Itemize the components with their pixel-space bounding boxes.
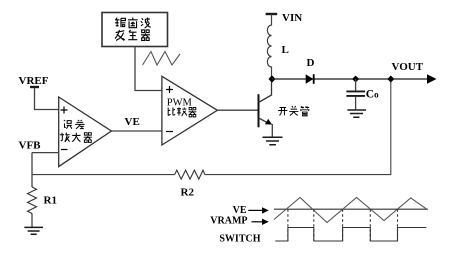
svg-text:VOUT: VOUT bbox=[392, 61, 424, 73]
resistor R1 bbox=[28, 187, 37, 214]
dashed crossing line 2 bbox=[313, 209, 315, 241]
wire R1 to ground bbox=[31, 214, 33, 228]
wire sawtooth box to PWM + input bbox=[135, 47, 162, 91]
dashed crossing line 3 bbox=[342, 209, 344, 241]
waveform VE level line bbox=[274, 208, 428, 210]
svg-text:R1: R1 bbox=[44, 195, 57, 207]
wire emitter to ground bbox=[271, 124, 273, 137]
label 放大器 bbox=[60, 133, 92, 143]
transistor Q1 emitter with arrow bbox=[259, 118, 273, 125]
svg-text:VREF: VREF bbox=[19, 75, 49, 87]
transistor Q1 collector bbox=[259, 80, 272, 103]
wire PWM output to transistor base bbox=[217, 109, 257, 111]
plus sign error amp bbox=[61, 107, 68, 114]
wire feedback VFB to R2 bbox=[32, 174, 175, 176]
node junction VOUT feedback bbox=[387, 76, 394, 83]
node junction Co bbox=[352, 76, 359, 83]
comparator U2 PWM triangle bbox=[162, 76, 218, 145]
op-amp U1 error amplifier triangle bbox=[59, 97, 112, 167]
ground under transistor bbox=[263, 137, 283, 144]
minus sign PWM bbox=[166, 131, 173, 133]
waveform SWITCH square wave bbox=[275, 228, 426, 242]
svg-text:SWITCH: SWITCH bbox=[219, 234, 260, 245]
svg-text:VE: VE bbox=[233, 205, 247, 216]
waveform VRAMP triangle wave bbox=[274, 198, 428, 223]
wire error amp output to PWM - input bbox=[111, 130, 161, 132]
wire VREF to op-amp + input bbox=[35, 88, 60, 110]
svg-text:VE: VE bbox=[125, 116, 140, 128]
svg-text:VFB: VFB bbox=[19, 140, 42, 152]
label 开关管 bbox=[278, 106, 309, 116]
inductor L coil bbox=[267, 14, 271, 77]
minus sign error amp bbox=[61, 149, 68, 151]
svg-text:R2: R2 bbox=[181, 187, 195, 199]
plus sign PWM bbox=[166, 86, 173, 93]
wire VFB node down to R1 bbox=[31, 153, 33, 187]
diode D bbox=[306, 74, 314, 84]
VIN terminal bar bbox=[266, 13, 278, 15]
ground under R1 bbox=[24, 227, 43, 234]
svg-text:VIN: VIN bbox=[282, 12, 302, 24]
dashed crossing line 1 bbox=[287, 209, 289, 241]
svg-text:VRAMP: VRAMP bbox=[210, 216, 247, 227]
sawtooth waveform symbol bbox=[143, 52, 181, 66]
resistor R2 bbox=[175, 170, 205, 179]
wire Co to ground bbox=[355, 97, 357, 110]
label 发生器 bbox=[115, 30, 150, 41]
wire R2 to VOUT feedback bbox=[205, 80, 391, 175]
wire main output rail bbox=[272, 78, 427, 80]
svg-text:L: L bbox=[282, 44, 289, 56]
ground under Co bbox=[347, 110, 366, 117]
svg-text:Co: Co bbox=[366, 89, 379, 101]
capacitor Co bbox=[346, 91, 365, 96]
svg-text:PWM: PWM bbox=[167, 98, 193, 109]
sawtooth generator box bbox=[102, 13, 168, 47]
wire VFB to op-amp - input bbox=[32, 152, 59, 154]
label 锯齿波 bbox=[115, 18, 151, 29]
dashed crossing line 5 bbox=[397, 209, 399, 241]
svg-text:D: D bbox=[307, 57, 315, 69]
label 比较器 bbox=[168, 107, 196, 116]
VOUT arrowhead bbox=[427, 74, 437, 83]
node junction collector/inductor/diode bbox=[268, 75, 275, 82]
arrow VE bbox=[248, 207, 268, 213]
VREF terminal bar bbox=[30, 86, 39, 88]
arrow VRAMP bbox=[252, 219, 269, 225]
dashed crossing line 4 bbox=[369, 209, 371, 241]
wire rail to capacitor Co bbox=[355, 79, 357, 91]
transistor Q1 base bar bbox=[258, 94, 260, 127]
label 误差 bbox=[64, 120, 85, 129]
